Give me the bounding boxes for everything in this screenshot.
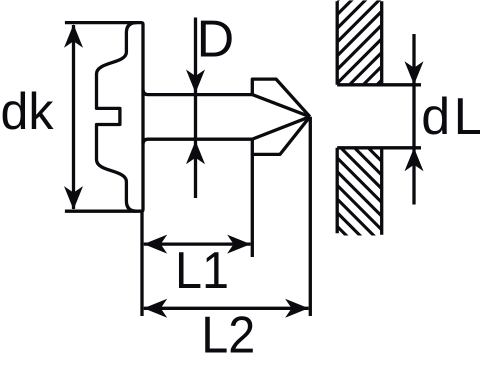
svg-text:L1: L1: [175, 242, 229, 300]
dimension L2 arrow right: [285, 299, 309, 318]
svg-text:dL: dL: [421, 88, 480, 146]
svg-text:dk: dk: [1, 83, 55, 141]
dimension L1 arrow right: [227, 235, 251, 254]
svg-text:D: D: [197, 10, 235, 68]
screw head flange and slotted back profile: [97, 23, 137, 212]
dimension L1 line: [144, 242, 251, 245]
plate upper: left edge: [336, 1, 339, 85]
drill point upper cone edge: [252, 95, 310, 117]
dimension D arrow up: [186, 141, 205, 165]
dimension dk line: [72, 25, 75, 209]
dimension dk arrow down: [64, 186, 83, 210]
plate lower: left edge (broken end): [336, 148, 339, 234]
extension line top (head top edge, dk): [65, 23, 143, 212]
extension line at flange face (L1/L2 left): [140, 211, 143, 316]
dimension dL arrow down: [405, 61, 424, 85]
dimension L2 arrow left: [144, 299, 168, 318]
extension line at tip (L2 right): [309, 117, 312, 316]
dimension D line: [194, 18, 197, 199]
shaft bottom line: [143, 139, 252, 144]
plate lower: right edge (broken end): [380, 148, 383, 235]
dimension dL line: [412, 34, 415, 205]
svg-text:L2: L2: [201, 307, 255, 365]
dimension dk arrow up: [64, 24, 83, 48]
dimension D arrow down: [186, 70, 205, 94]
dimension L2 line: [144, 307, 309, 310]
plate upper: right edge: [380, 1, 383, 85]
drill point lower cone edge: [252, 117, 310, 140]
plate upper: bottom edge / dL extension: [337, 83, 421, 86]
dimension L1 arrow left: [144, 235, 168, 254]
plate lower: top edge / dL extension: [337, 146, 421, 149]
drill point upper flute: [252, 79, 310, 117]
drill point lower flute: [252, 117, 310, 155]
plate upper: hatching: [248, 0, 478, 90]
plate lower: hatching: [257, 146, 474, 240]
shaft top line: [143, 90, 252, 95]
dimension dL arrow up: [405, 148, 424, 172]
extension line at shaft end (L1 right): [251, 154, 254, 257]
